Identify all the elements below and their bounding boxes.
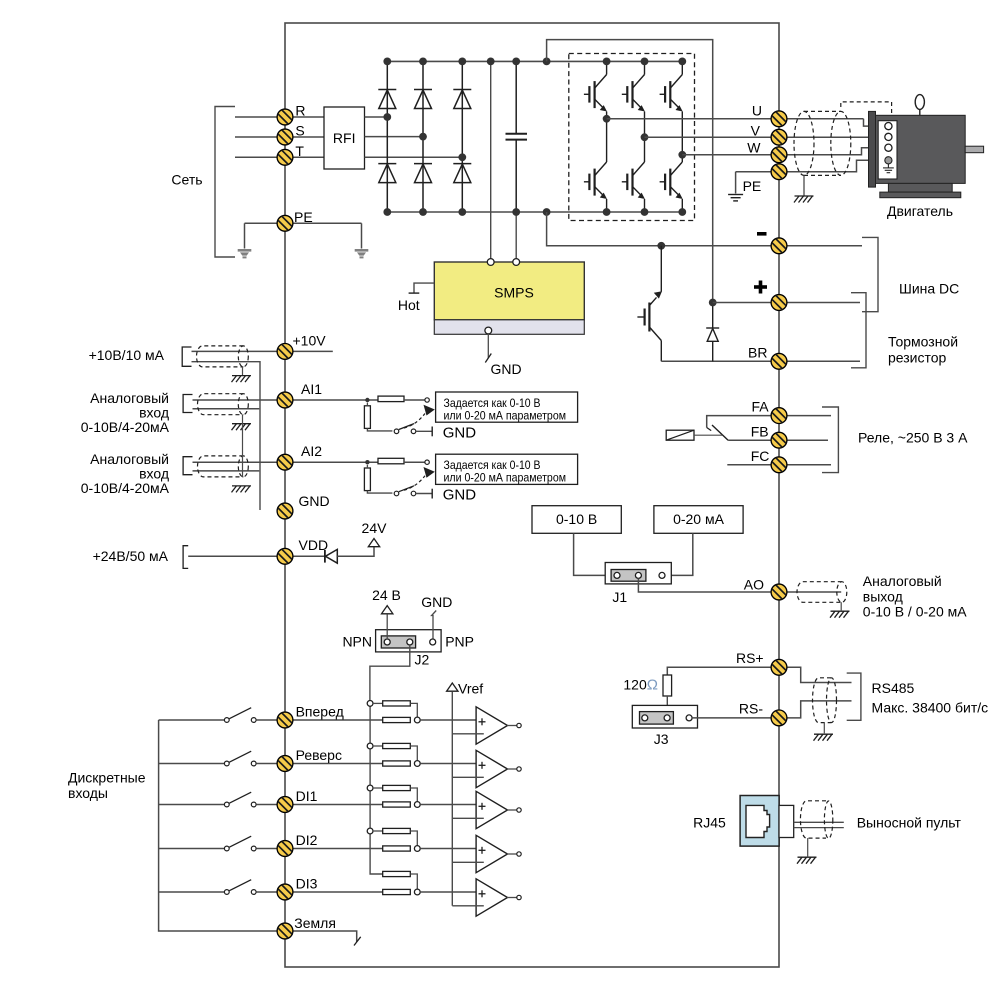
wire +10V return / analog bus — [192, 362, 261, 510]
wire IGBT U low collector — [606, 119, 608, 162]
junction W top rail — [678, 58, 686, 66]
junction V top rail — [641, 58, 649, 66]
wire pull-up DI3 to node — [410, 874, 417, 889]
J3 pin 3 — [686, 715, 692, 721]
svg-text:24V: 24V — [362, 520, 388, 536]
svg-text:Макс. 38400 бит/с: Макс. 38400 бит/с — [872, 699, 989, 715]
terminal Земля — [277, 923, 293, 939]
wire remote shield drop — [807, 838, 809, 856]
wire DI3 to comparator — [420, 891, 476, 893]
SMPS base strip — [434, 320, 584, 335]
svg-text:R: R — [295, 103, 305, 119]
wire comparator Реверс output — [507, 768, 517, 770]
wire VDD input — [188, 555, 277, 557]
wire switch DI1 right — [256, 804, 277, 806]
wire DC+ link to + terminal — [547, 40, 713, 303]
wire FC — [727, 464, 771, 466]
svg-text:FB: FB — [751, 423, 769, 439]
wire RS485 shield drop — [823, 723, 825, 734]
wire IGBT W high collector — [681, 61, 683, 74]
junction DC+ rail — [543, 58, 551, 66]
wire shield drop AI2 — [242, 423, 244, 477]
svg-text:Дискретные: Дискретные — [68, 770, 146, 786]
wire PE right drop — [361, 223, 363, 248]
svg-text:VDD: VDD — [299, 537, 329, 553]
wire BR external — [787, 360, 860, 362]
svg-text:DI3: DI3 — [296, 876, 318, 892]
svg-text:RS+: RS+ — [736, 650, 764, 666]
junction AI2 — [365, 460, 369, 464]
svg-text:Аналоговый: Аналоговый — [90, 390, 169, 406]
wire pull-up DI1 to node — [410, 788, 417, 802]
wire — [366, 403, 368, 406]
svg-text:FC: FC — [751, 448, 770, 464]
transistor IGBT U high — [584, 75, 607, 112]
resistor series DI3 — [383, 889, 411, 894]
wire Hot lead — [414, 283, 434, 293]
svg-text:U: U — [752, 103, 762, 119]
switch DI1 contact b — [251, 802, 256, 807]
GND lead slash — [485, 354, 491, 363]
svg-text:Vref: Vref — [458, 681, 483, 697]
switch Вперед blade — [229, 708, 251, 719]
wire FC external — [787, 464, 831, 466]
svg-text:вход: вход — [139, 405, 169, 421]
junction DC- rail — [543, 208, 551, 216]
node Реверс — [414, 761, 420, 767]
svg-text:RS-: RS- — [739, 701, 763, 717]
wire PE motor side — [736, 171, 779, 173]
J2 pin 1 — [384, 639, 390, 645]
terminal RS- — [771, 710, 787, 726]
wire J2 pin3 to GND — [432, 611, 437, 639]
svg-text:+10V: +10V — [293, 332, 327, 348]
op-amp comparator DI1 — [476, 791, 507, 828]
terminal + — [771, 295, 787, 311]
node rectifier phase T — [458, 153, 466, 161]
svg-text:выход: выход — [863, 588, 903, 604]
output contact DI3 — [517, 895, 521, 899]
remote panel cable shield — [800, 801, 832, 839]
arrow 24V supply — [368, 539, 379, 547]
wire switch Реверс left — [159, 763, 225, 765]
wire rail to pull-up DI1 — [373, 787, 383, 789]
switch DI2 blade — [229, 836, 251, 847]
box 0-10 В — [532, 506, 621, 534]
diode D1 upper — [378, 90, 396, 109]
bracket — [183, 546, 188, 569]
bracket — [822, 407, 838, 473]
terminal FB — [771, 432, 787, 448]
svg-text:NPN: NPN — [342, 634, 372, 650]
jumper J3 bridge — [640, 712, 674, 725]
diode brake — [706, 328, 719, 341]
wire IGBT U high collector — [606, 61, 608, 74]
resistor series DI2 — [383, 846, 411, 851]
shielded cable +10V — [197, 346, 249, 367]
jumper J2 bridge — [381, 636, 415, 648]
svg-text:J1: J1 — [612, 589, 627, 605]
svg-text:Аналоговый: Аналоговый — [90, 451, 169, 467]
switch Реверс blade — [229, 751, 251, 762]
wire switch DI2 left — [159, 848, 225, 850]
wire Vref rail — [451, 692, 453, 906]
jumper J1 outer — [605, 563, 671, 584]
terminal DI1 — [277, 797, 293, 813]
motor terminal 4 (PE) — [885, 157, 892, 164]
wire AI1 return — [193, 408, 260, 410]
chassis ground RS485 cable — [814, 734, 834, 741]
svg-text:+10В/10 мА: +10В/10 мА — [89, 347, 165, 363]
terminal R — [277, 109, 293, 125]
J3 pin 2 — [664, 715, 670, 721]
brake chopper IGBT — [637, 246, 662, 361]
op-amp comparator DI2 — [476, 835, 507, 872]
wire IGBT V low collector — [644, 137, 646, 162]
svg-text:Земля: Земля — [294, 915, 336, 931]
svg-text:Вперед: Вперед — [296, 704, 344, 720]
terminal PE — [277, 215, 293, 231]
wire capacitor bottom — [515, 140, 517, 212]
terminal W — [771, 147, 787, 163]
bracket — [847, 673, 861, 720]
junction V bottom rail — [641, 208, 649, 216]
GND bar AI2 — [431, 489, 433, 499]
junction DC+ rail — [487, 58, 495, 66]
svg-text:S: S — [295, 123, 304, 139]
junction DC+ rail — [383, 58, 391, 66]
svg-text:Реле, ~250 В 3 А: Реле, ~250 В 3 А — [858, 429, 968, 445]
inverter dashed module box — [569, 54, 695, 221]
wire IGBT V high emitter — [644, 112, 646, 138]
node phase W — [678, 151, 686, 159]
motor lifting eye — [915, 95, 924, 110]
switch DI1 blade — [229, 792, 251, 803]
wire motor U — [787, 118, 864, 120]
wire comparator Вперед output — [507, 725, 517, 727]
wire rail to pull-up Вперед — [373, 702, 383, 704]
motor pedestal — [888, 183, 952, 192]
wire PE left drop — [244, 223, 246, 248]
wire switch DI2 right — [256, 848, 277, 850]
wire BR — [661, 360, 779, 362]
svg-text:Шина DC: Шина DC — [899, 280, 959, 296]
SMPS pin DC- — [513, 259, 520, 266]
junction DC+ rail — [512, 58, 520, 66]
svg-text:SMPS: SMPS — [494, 285, 534, 301]
wire — [366, 465, 368, 468]
wire AI1 switch to GND — [416, 430, 432, 432]
wire Vref to comparator DI2 inverting — [452, 861, 484, 863]
GND bar AI1 — [431, 427, 433, 437]
junction W bottom rail — [678, 208, 686, 216]
chassis ground +10V cable — [232, 376, 252, 383]
wire Vref to comparator Вперед inverting — [452, 733, 484, 735]
chassis ground AI2 cable — [232, 486, 252, 493]
rail contact DI1 — [367, 785, 373, 791]
wire RFI out S — [365, 136, 424, 138]
wire IGBT V low emitter — [644, 199, 646, 212]
contact AI2 — [425, 460, 429, 464]
op-amp comparator Вперед — [476, 707, 507, 744]
svg-text:0-10В/4-20мА: 0-10В/4-20мА — [81, 480, 170, 496]
jumper J3 outer — [632, 705, 697, 728]
wire - external — [787, 245, 862, 247]
bracket brake resistor — [851, 293, 866, 368]
svg-text:V: V — [751, 123, 761, 139]
switch DI3 contact a — [224, 890, 229, 895]
wire RS- external — [787, 701, 852, 718]
relay coil K1 — [666, 430, 694, 440]
transistor IGBT W high — [660, 75, 683, 112]
wire AI2 switch to GND — [416, 493, 432, 495]
bracket — [182, 347, 191, 366]
svg-text:0-10 В / 0-20 мА: 0-10 В / 0-20 мА — [863, 604, 967, 620]
wire Реверс internal — [293, 763, 383, 765]
svg-text:RFI: RFI — [333, 130, 356, 146]
wire Вперед to comparator — [420, 719, 476, 721]
bracket Сеть — [215, 107, 235, 258]
relay armature — [712, 425, 728, 440]
terminal PE motor — [771, 164, 787, 180]
wire AI1 to contact — [404, 399, 425, 401]
shielded cable AI1 — [198, 394, 249, 415]
wire SMPS feed from DC- — [515, 212, 517, 262]
diode VDD (points left) — [325, 549, 337, 563]
wire rectifier column 3 — [461, 61, 463, 212]
resistor 120Ω — [663, 675, 672, 696]
transistor IGBT W low — [660, 162, 683, 199]
SMPS box — [434, 262, 584, 320]
svg-text:или 0-20 мА параметром: или 0-20 мА параметром — [444, 471, 567, 485]
earth ground PE right — [355, 249, 369, 258]
diode D5 upper — [453, 90, 471, 109]
wire AI2 internal — [293, 461, 378, 463]
wire J1 to AO — [638, 578, 771, 592]
node DI2 — [414, 846, 420, 852]
resistor AI2 shunt — [364, 468, 370, 491]
resistor series DI1 — [383, 802, 411, 807]
switch contact a AI1 — [394, 429, 399, 434]
output contact DI2 — [517, 852, 521, 856]
terminal - — [771, 238, 787, 254]
wire discrete input common bus — [159, 720, 278, 931]
SMPS pin DC+ — [487, 259, 494, 266]
terminal AO — [771, 584, 787, 600]
svg-text:DI1: DI1 — [296, 788, 318, 804]
svg-text:вход: вход — [139, 466, 169, 482]
wire IGBT W low collector — [681, 155, 683, 162]
junction DC- rail — [383, 208, 391, 216]
J1 pin 3 — [659, 572, 665, 578]
svg-text:Реверс: Реверс — [296, 747, 342, 763]
resistor pull-up Реверс — [383, 743, 411, 748]
capacitor C1 DC link — [506, 134, 528, 140]
rail contact Реверс — [367, 743, 373, 749]
svg-text:DI2: DI2 — [296, 832, 318, 848]
svg-text:GND: GND — [443, 424, 477, 441]
svg-text:PE: PE — [743, 178, 762, 194]
chassis ground motor shield — [794, 196, 814, 203]
wire IGBT U high emitter — [606, 112, 608, 119]
wire AI2 input — [193, 461, 278, 463]
wire pull-up Реверс to node — [410, 746, 417, 761]
dashed arrow AI1 parameter — [404, 414, 425, 429]
motor terminal box — [878, 121, 897, 179]
junction DC- rail — [419, 208, 427, 216]
wire Земля tail — [293, 931, 357, 942]
wire pull-up rail — [370, 703, 383, 874]
diode D6 lower — [453, 164, 471, 183]
wire AI1 internal — [293, 399, 378, 401]
svg-text:GND: GND — [491, 361, 522, 377]
junction AI1 — [365, 398, 369, 402]
svg-text:RS485: RS485 — [872, 680, 915, 696]
svg-text:120Ω: 120Ω — [623, 677, 658, 694]
wire + terminal — [713, 302, 779, 304]
wire PE left — [245, 222, 286, 224]
motor terminal 3 — [885, 144, 892, 151]
switch DI2 contact a — [224, 846, 229, 851]
J1 pin 2 — [635, 572, 641, 578]
box 0-20 мА — [654, 506, 743, 534]
dashed arrow AI2 parameter — [404, 476, 425, 491]
chassis ground remote cable — [797, 857, 817, 864]
junction U top rail — [603, 58, 611, 66]
RJ45 plug — [779, 805, 794, 837]
wire motor PE — [787, 160, 885, 171]
wire Реверс to comparator — [420, 763, 476, 765]
wire PE motor drop — [735, 172, 737, 194]
node Вперед — [414, 717, 420, 723]
terminal FC — [771, 457, 787, 473]
diode D3 upper — [414, 90, 432, 109]
motor body — [876, 115, 966, 183]
wire resistor to J3 — [666, 696, 668, 715]
resistor AI1 shunt — [364, 406, 370, 429]
wire FB — [728, 439, 771, 441]
node DI1 — [414, 802, 420, 808]
svg-text:PNP: PNP — [445, 634, 474, 650]
wire FA — [707, 416, 772, 428]
terminal U — [771, 111, 787, 127]
wire AI2 return — [193, 470, 260, 472]
terminal Вперед — [277, 712, 293, 728]
terminal AI1 — [277, 392, 293, 408]
motor terminal 1 — [885, 123, 892, 130]
terminal RS+ — [771, 659, 787, 675]
wire comparator DI2 output — [507, 853, 517, 855]
resistor series Вперед — [383, 717, 411, 722]
diode D4 lower — [414, 164, 432, 183]
terminal AI2 — [277, 454, 293, 470]
contact AI1 — [425, 398, 429, 402]
wire IGBT V high collector — [644, 61, 646, 74]
wire comparator DI3 output — [507, 897, 517, 899]
junction DC+ rail — [419, 58, 427, 66]
wire J3 to RS- — [692, 717, 771, 719]
wire RFI out T — [365, 156, 463, 158]
wire brake diode top — [712, 303, 714, 329]
transistor IGBT V low — [622, 162, 645, 199]
label plus — [754, 281, 767, 294]
wire SMPS GND lead — [487, 334, 489, 358]
wire pull-up DI2 to node — [410, 831, 417, 846]
RS485 cable shield — [813, 678, 837, 723]
junction DC+ rail — [458, 58, 466, 66]
terminal DI2 — [277, 841, 293, 857]
svg-text:RJ45: RJ45 — [693, 815, 726, 831]
relay fixed contact tick — [707, 428, 712, 431]
wire +10V right stub — [293, 350, 333, 352]
switch Реверс contact a — [224, 761, 229, 766]
junction U bottom rail — [603, 208, 611, 216]
wire shield drop AI1 — [242, 415, 244, 423]
wire AI2 to contact — [404, 461, 425, 463]
wire motor W — [787, 148, 885, 155]
diode D2 lower — [378, 164, 396, 183]
wire S input — [235, 136, 324, 138]
switch contact b AI2 — [411, 491, 416, 496]
switch contact b AI1 — [411, 429, 416, 434]
svg-text:W: W — [747, 140, 761, 156]
wire remote panel a — [794, 821, 844, 823]
switch blade AI2 — [399, 486, 414, 492]
transistor IGBT V high — [622, 75, 645, 112]
wire DI2 internal — [293, 848, 383, 850]
svg-text:входы: входы — [68, 785, 108, 801]
J2 pin 3 — [430, 639, 436, 645]
resistor series Реверс — [383, 761, 411, 766]
svg-text:J3: J3 — [654, 731, 669, 747]
svg-text:0-10В/4-20мА: 0-10В/4-20мА — [81, 419, 170, 435]
wire 0-10В to J1 — [574, 533, 606, 575]
node rectifier phase R — [383, 113, 391, 121]
svg-text:Выносной пульт: Выносной пульт — [857, 815, 962, 831]
wire switch Реверс right — [256, 763, 277, 765]
resistor pull-up DI2 — [383, 828, 411, 833]
note box AI1 — [436, 392, 578, 422]
wire rail to pull-up DI2 — [373, 830, 383, 832]
wire Вперед internal — [293, 719, 383, 721]
op-amp comparator Реверс — [476, 750, 507, 787]
terminal GND — [277, 503, 293, 519]
wire switch Вперед right — [256, 719, 277, 721]
switch DI1 contact a — [224, 802, 229, 807]
wire rectifier column 2 — [422, 61, 424, 212]
wire remote panel b — [794, 827, 844, 829]
RFI filter box — [324, 107, 365, 169]
resistor pull-up Вперед — [383, 701, 411, 706]
terminal +10V — [277, 344, 293, 360]
Hot lead bar — [409, 292, 420, 294]
wire DC+ top rail — [387, 60, 682, 62]
switch Реверс contact b — [251, 761, 256, 766]
svg-text:резистор: резистор — [888, 350, 947, 366]
wire motor V — [787, 136, 885, 138]
wire J2 common to input rail — [370, 645, 410, 703]
wire R input — [235, 116, 324, 118]
wire AI1 input — [193, 399, 278, 401]
shielded cable AO — [797, 582, 847, 603]
svg-text:24 В: 24 В — [372, 587, 401, 603]
note box AI2 — [436, 454, 578, 484]
node phase U — [603, 115, 611, 123]
SMPS pin GND — [485, 327, 492, 334]
bracket — [183, 457, 192, 475]
Земля tail slash — [354, 937, 361, 946]
output contact DI1 — [517, 808, 521, 812]
